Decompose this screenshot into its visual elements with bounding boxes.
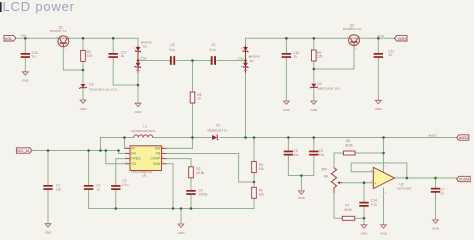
svg-text:GND: GND bbox=[80, 107, 88, 111]
svg-text:1u: 1u bbox=[388, 53, 392, 57]
svg-text:GND: GND bbox=[375, 107, 383, 111]
svg-text:10: 10 bbox=[197, 96, 201, 100]
svg-text:GND: GND bbox=[432, 227, 440, 231]
svg-text:GND: GND bbox=[361, 232, 369, 236]
svg-text:0.1u: 0.1u bbox=[210, 48, 216, 52]
svg-text:AVDD: AVDD bbox=[459, 136, 469, 140]
svg-text:10k: 10k bbox=[259, 193, 265, 197]
svg-text:GND: GND bbox=[380, 232, 388, 236]
svg-text:SW: SW bbox=[155, 147, 161, 151]
svg-text:PZU8.2B1A-QA, 8.2V: PZU8.2B1A-QA, 8.2V bbox=[89, 88, 117, 92]
svg-text:VCOM: VCOM bbox=[459, 178, 469, 182]
svg-text:LCD power: LCD power bbox=[3, 0, 75, 14]
svg-text:1u: 1u bbox=[293, 55, 297, 59]
svg-text:D3: D3 bbox=[89, 82, 93, 86]
svg-text:COM: COM bbox=[238, 57, 244, 61]
svg-text:0.1u: 0.1u bbox=[122, 183, 128, 187]
svg-text:1u: 1u bbox=[96, 188, 100, 192]
svg-text:COMP: COMP bbox=[150, 157, 161, 161]
svg-text:GND: GND bbox=[22, 79, 30, 83]
svg-text:LMT321MF: LMT321MF bbox=[397, 187, 412, 191]
svg-text:1u: 1u bbox=[121, 54, 125, 58]
svg-text:135: 135 bbox=[317, 54, 323, 58]
svg-text:BAT54S: BAT54S bbox=[249, 55, 260, 59]
svg-text:GND: GND bbox=[178, 231, 186, 235]
svg-text:VGH: VGH bbox=[378, 34, 385, 38]
svg-text:D1: D1 bbox=[216, 123, 220, 127]
svg-text:C8: C8 bbox=[170, 43, 174, 47]
svg-text:0.1u: 0.1u bbox=[371, 203, 377, 207]
svg-text:VGH: VGH bbox=[397, 36, 406, 41]
svg-text:GND: GND bbox=[135, 110, 143, 114]
svg-text:1500p: 1500p bbox=[199, 192, 208, 196]
svg-text:VGL: VGL bbox=[21, 34, 27, 38]
svg-text:FP6122DB0VAR: FP6122DB0VAR bbox=[131, 170, 152, 174]
svg-text:GND: GND bbox=[153, 162, 161, 166]
svg-text:49.9k: 49.9k bbox=[344, 208, 352, 212]
svg-text:0.1u: 0.1u bbox=[169, 48, 175, 52]
svg-text:MMSZ16VB, 16V: MMSZ16VB, 16V bbox=[317, 86, 339, 90]
svg-text:D5: D5 bbox=[143, 45, 147, 49]
svg-text:EN: EN bbox=[131, 152, 136, 156]
svg-text:D4: D4 bbox=[250, 59, 254, 63]
svg-text:BC857C-7-F: BC857C-7-F bbox=[50, 29, 67, 33]
svg-text:+: + bbox=[374, 182, 376, 186]
svg-text:U1: U1 bbox=[143, 173, 147, 177]
svg-text:475: 475 bbox=[87, 54, 93, 58]
svg-text:GND: GND bbox=[283, 108, 291, 112]
svg-text:49.9k: 49.9k bbox=[196, 171, 204, 175]
svg-text:C6: C6 bbox=[211, 43, 215, 47]
svg-text:LQH44PN4R7MP0L: LQH44PN4R7MP0L bbox=[131, 129, 157, 133]
svg-text:VCC_3A: VCC_3A bbox=[17, 149, 30, 153]
svg-text:50K: 50K bbox=[322, 167, 329, 171]
svg-text:13u: 13u bbox=[56, 188, 62, 192]
svg-text:GND: GND bbox=[45, 231, 53, 235]
svg-text:10u: 10u bbox=[319, 153, 325, 157]
svg-text:MBR0520LT1G: MBR0520LT1G bbox=[208, 128, 229, 132]
svg-text:GND: GND bbox=[298, 196, 306, 200]
svg-text:91k: 91k bbox=[259, 167, 265, 171]
svg-text:AVDD: AVDD bbox=[429, 133, 438, 137]
svg-text:10u: 10u bbox=[294, 153, 300, 157]
svg-text:VGL: VGL bbox=[5, 36, 14, 41]
svg-text:1u: 1u bbox=[441, 191, 445, 195]
svg-text:FREQ: FREQ bbox=[131, 157, 141, 161]
svg-text:GS: GS bbox=[131, 162, 137, 166]
svg-text:49.9k: 49.9k bbox=[345, 143, 353, 147]
svg-text:1u: 1u bbox=[32, 54, 36, 58]
svg-text:R4: R4 bbox=[324, 175, 328, 179]
svg-text:BC850CLT1G: BC850CLT1G bbox=[343, 27, 362, 31]
svg-text:GND: GND bbox=[310, 108, 318, 112]
